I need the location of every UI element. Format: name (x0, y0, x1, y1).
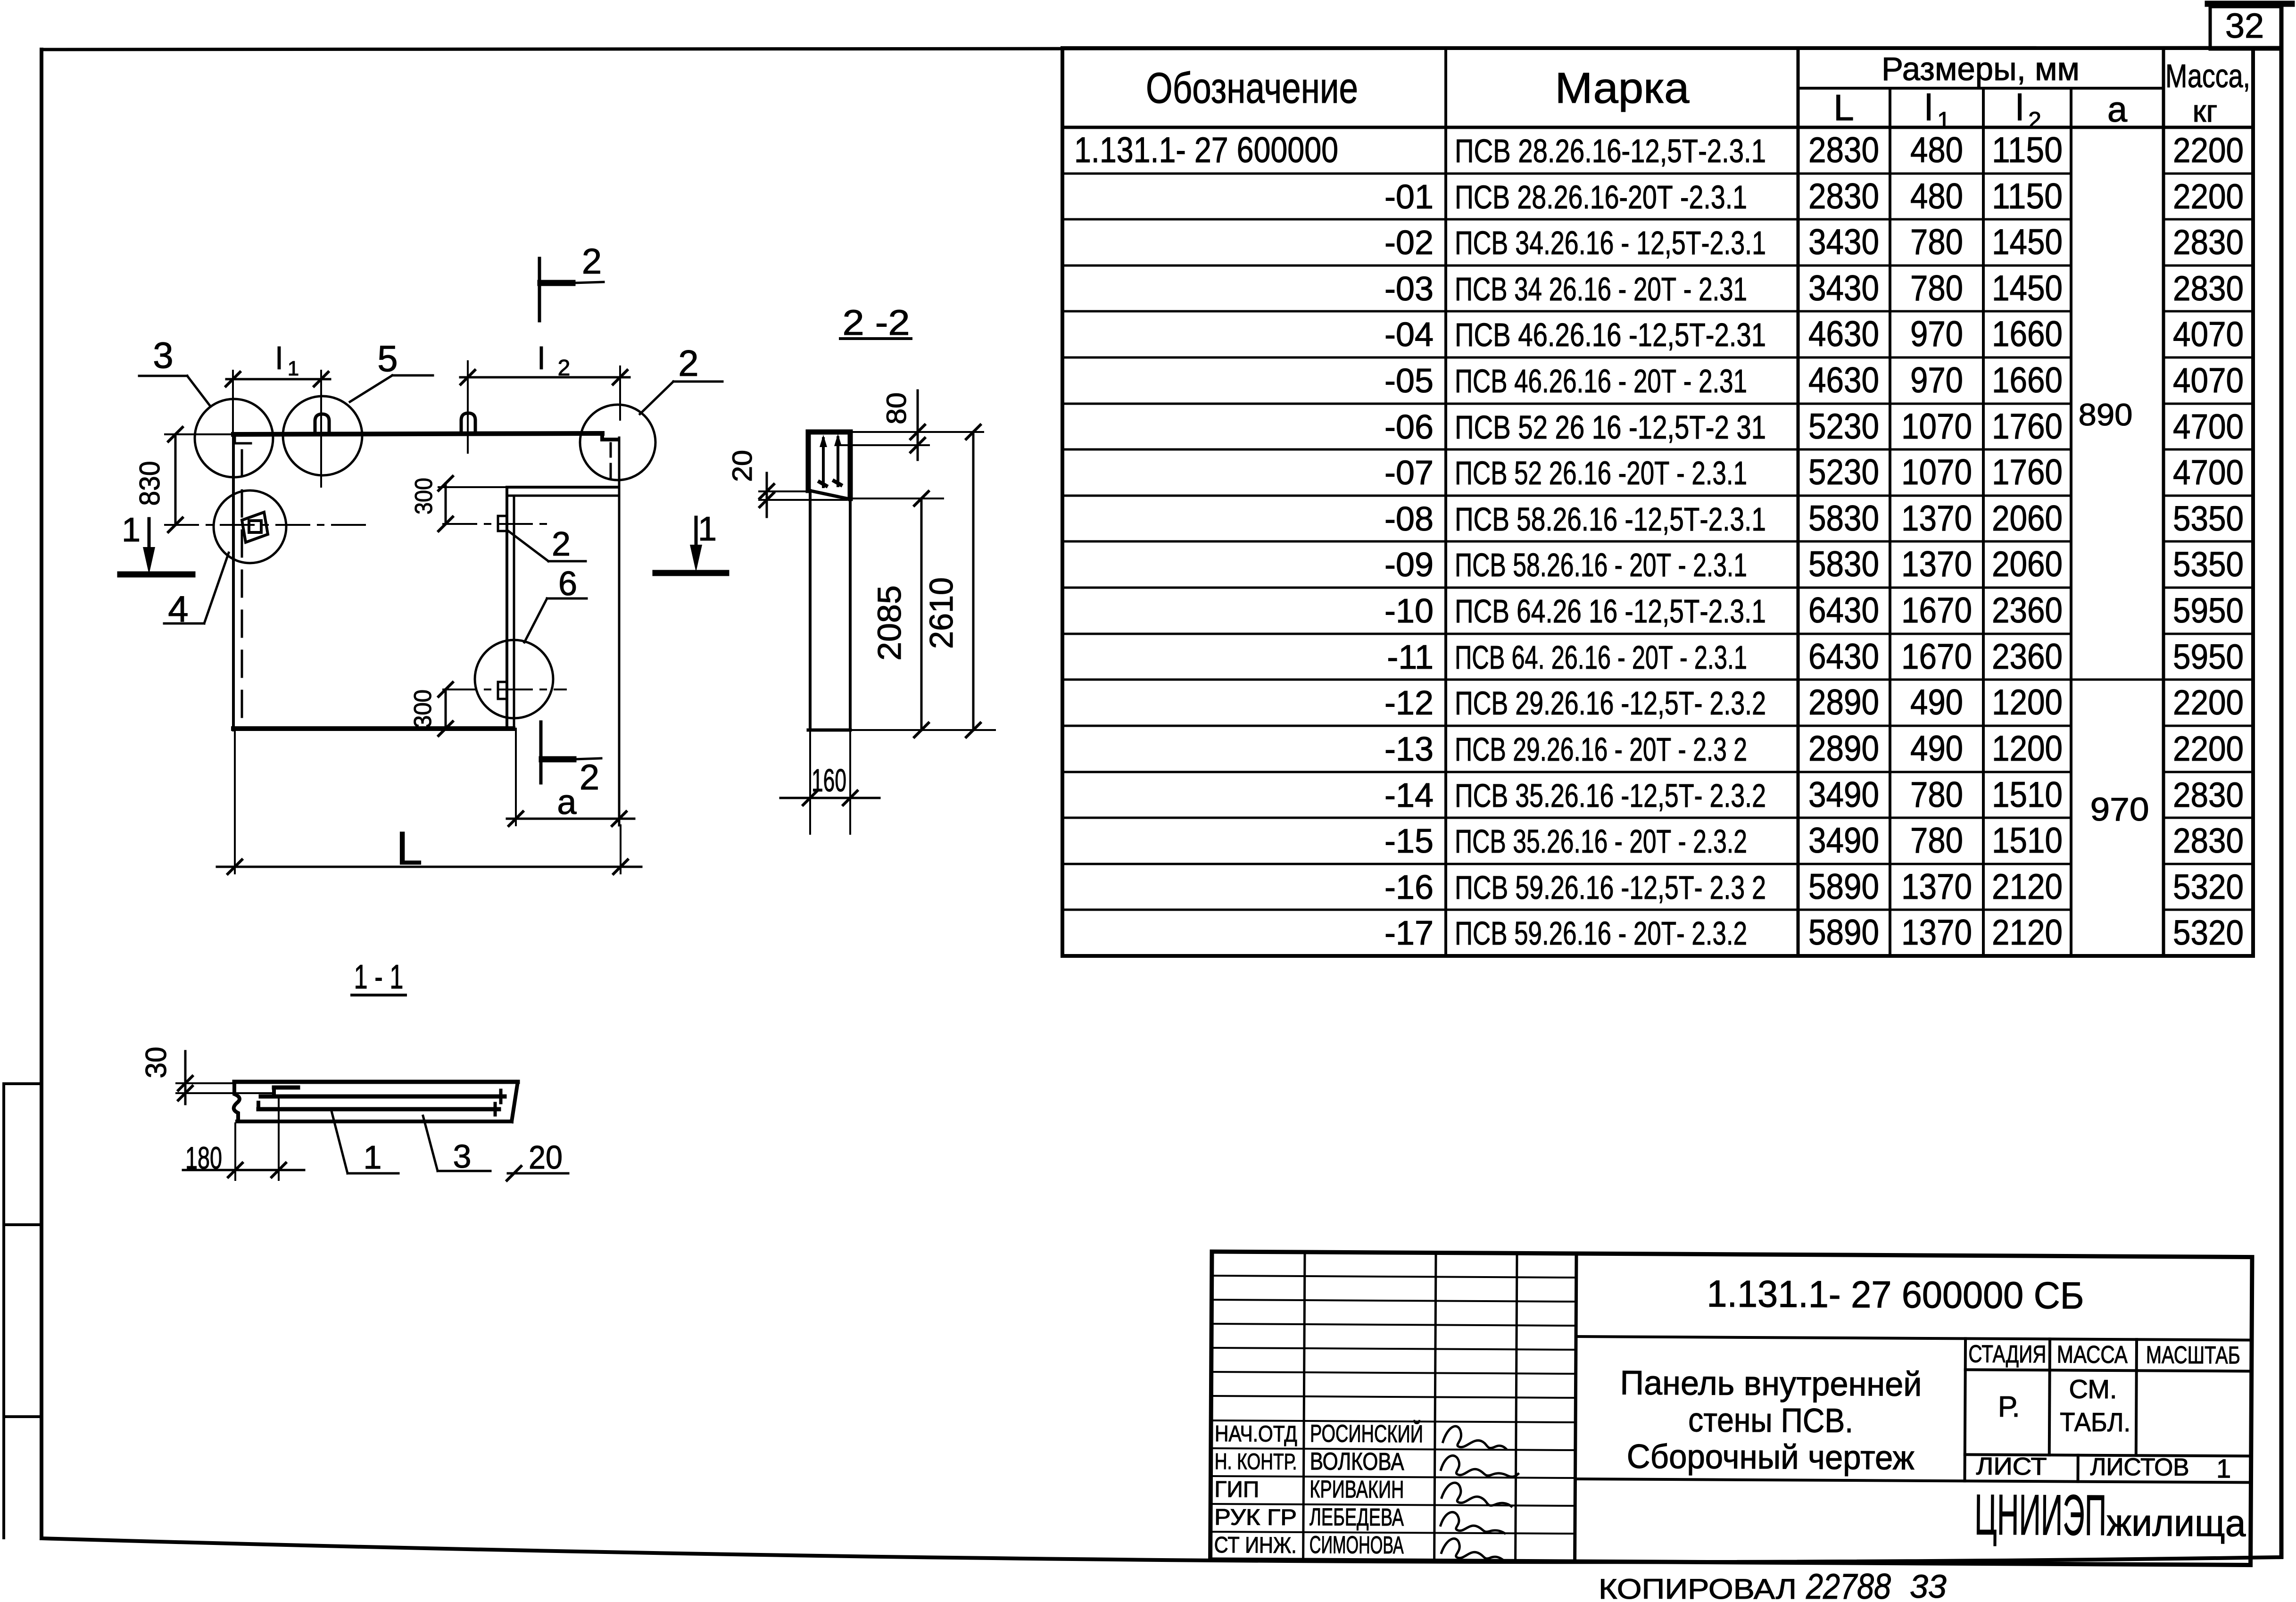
svg-text:МАСШТАБ: МАСШТАБ (2146, 1341, 2240, 1369)
svg-text:3: 3 (453, 1138, 472, 1175)
svg-text:1: 1 (2216, 1453, 2231, 1483)
svg-text:НАЧ.ОТД: НАЧ.ОТД (1215, 1421, 1297, 1447)
svg-text:2: 2 (582, 241, 602, 282)
svg-text:33: 33 (1910, 1568, 1947, 1602)
svg-text:32: 32 (2225, 6, 2264, 45)
dim 80 (917, 390, 919, 460)
svg-text:2610: 2610 (923, 577, 960, 649)
svg-text:1.131.1- 27 600000 СБ: 1.131.1- 27 600000 СБ (1707, 1272, 2084, 1316)
label 2 (top right callout) (673, 381, 722, 383)
svg-text:-16: -16 (1384, 869, 1434, 906)
svg-text:l: l (538, 341, 545, 376)
svg-text:4630: 4630 (1808, 360, 1879, 400)
svg-text:ПСВ 34 26.16 - 20Т - 2.31: ПСВ 34 26.16 - 20Т - 2.31 (1455, 271, 1747, 307)
section outline top thick part (808, 430, 850, 435)
dimension L (234, 730, 236, 873)
svg-text:l: l (1924, 87, 1932, 128)
svg-text:ЛИСТОВ: ЛИСТОВ (2090, 1453, 2189, 1481)
svg-text:2830: 2830 (1808, 130, 1879, 170)
svg-text:2 -2: 2 -2 (843, 303, 910, 343)
svg-text:300: 300 (410, 478, 438, 515)
svg-text:ПСВ 29.26.16 -12,5Т- 2.3.2: ПСВ 29.26.16 -12,5Т- 2.3.2 (1455, 685, 1766, 722)
label 4 (164, 623, 204, 625)
svg-text:-13: -13 (1384, 730, 1434, 768)
svg-text:2200: 2200 (2173, 131, 2244, 170)
svg-text:2: 2 (678, 342, 698, 384)
svg-text:490: 490 (1910, 682, 1963, 722)
step edge double horizontal (507, 486, 618, 489)
svg-text:ПСВ 52 26.16 -20Т - 2.3.1: ПСВ 52 26.16 -20Т - 2.3.1 (1455, 455, 1747, 491)
callout circle 3 (top-left corner) (195, 399, 273, 477)
svg-text:ПСВ 58.26.16 -12,5Т-2.3.1: ПСВ 58.26.16 -12,5Т-2.3.1 (1455, 501, 1766, 538)
section 1-1 (140, 958, 568, 1180)
step edge double vertical (506, 487, 508, 729)
svg-text:22788: 22788 (1806, 1567, 1891, 1602)
panel bottom edge (233, 726, 513, 731)
svg-text:780: 780 (1910, 821, 1963, 861)
svg-text:1370: 1370 (1901, 544, 1972, 584)
leader 3 (423, 1116, 438, 1171)
svg-text:2120: 2120 (1992, 913, 2063, 953)
svg-text:1370: 1370 (1901, 867, 1972, 907)
label 5 (392, 374, 433, 377)
hidden line along left edge (241, 450, 243, 726)
svg-text:жилища: жилища (2106, 1502, 2246, 1544)
svg-text:СТАДИЯ: СТАДИЯ (1968, 1340, 2046, 1368)
svg-text:2085: 2085 (871, 585, 908, 661)
svg-text:-03: -03 (1384, 270, 1434, 308)
label 2 (upper embedded part) (548, 560, 586, 563)
svg-text:-04: -04 (1384, 316, 1434, 354)
label 3 (139, 375, 187, 377)
dim 180 (234, 1123, 236, 1180)
svg-text:ПСВ 46.26.16 -12,5Т-2.31: ПСВ 46.26.16 -12,5Т-2.31 (1455, 316, 1766, 353)
slab outline (234, 1080, 518, 1084)
svg-text:-14: -14 (1384, 777, 1434, 814)
centerline upper embedded (443, 523, 552, 525)
dim 2085 (920, 498, 923, 730)
svg-text:1070: 1070 (1901, 452, 1972, 492)
svg-text:2: 2 (558, 356, 571, 381)
dimension l2 (460, 376, 630, 379)
svg-text:2360: 2360 (1992, 637, 2063, 677)
dim 2610 (972, 432, 975, 730)
svg-text:СИМОНОВА: СИМОНОВА (1310, 1531, 1404, 1559)
svg-text:2200: 2200 (2173, 729, 2244, 768)
svg-text:3490: 3490 (1808, 821, 1879, 861)
section lower walls (809, 490, 812, 730)
svg-text:СМ.: СМ. (2069, 1374, 2117, 1404)
svg-text:480: 480 (1910, 176, 1963, 216)
svg-text:4070: 4070 (2173, 361, 2244, 400)
svg-text:1150: 1150 (1992, 130, 2063, 170)
svg-text:ЛИСТ: ЛИСТ (1976, 1453, 2047, 1480)
svg-text:5950: 5950 (2173, 591, 2244, 630)
svg-text:ПСВ 64. 26.16 - 20Т - 2.3.1: ПСВ 64. 26.16 - 20Т - 2.3.1 (1455, 639, 1747, 676)
left margin boxes (4, 1084, 41, 1538)
svg-text:2830: 2830 (2173, 775, 2244, 814)
svg-text:-17: -17 (1384, 914, 1434, 952)
svg-text:1: 1 (1937, 107, 1950, 133)
label 6 (547, 598, 587, 600)
svg-text:-09: -09 (1384, 546, 1434, 584)
svg-text:1370: 1370 (1901, 913, 1972, 953)
svg-text:1760: 1760 (1992, 407, 2063, 447)
svg-text:1450: 1450 (1992, 268, 2063, 308)
svg-text:780: 780 (1910, 268, 1963, 308)
svg-text:l: l (276, 341, 283, 376)
svg-text:6: 6 (558, 565, 577, 603)
svg-text:1670: 1670 (1901, 637, 1972, 677)
svg-text:Р.: Р. (1998, 1391, 2020, 1423)
svg-text:5830: 5830 (1808, 498, 1879, 539)
svg-text:ПСВ 29.26.16 - 20Т - 2.3 2: ПСВ 29.26.16 - 20Т - 2.3 2 (1455, 731, 1747, 768)
svg-text:1.131.1- 27 600000: 1.131.1- 27 600000 (1074, 130, 1338, 170)
svg-text:1200: 1200 (1992, 729, 2063, 769)
svg-text:1510: 1510 (1992, 775, 2063, 815)
svg-text:4700: 4700 (2173, 453, 2244, 492)
svg-text:1670: 1670 (1901, 590, 1972, 631)
svg-text:5320: 5320 (2173, 867, 2244, 906)
svg-text:6430: 6430 (1808, 637, 1879, 677)
svg-text:ЛЕБЕДЕВА: ЛЕБЕДЕВА (1310, 1503, 1404, 1531)
leader 1 (332, 1111, 348, 1173)
dimension 300 upper (445, 483, 447, 524)
svg-text:L: L (396, 822, 423, 875)
svg-text:2830: 2830 (2173, 821, 2244, 860)
svg-text:кг: кг (2193, 93, 2218, 128)
svg-text:1660: 1660 (1992, 360, 2063, 400)
svg-text:5350: 5350 (2173, 545, 2244, 584)
embedded part lower on step (498, 682, 507, 699)
svg-text:5890: 5890 (1808, 913, 1879, 953)
callout circle 2 (top-right corner) (580, 405, 655, 480)
lifting loop 1 (315, 414, 329, 435)
top-right corner notch (602, 433, 618, 440)
dim 160 bottom (809, 732, 811, 834)
svg-text:ПСВ 52 26 16 -12,5Т-2 31: ПСВ 52 26 16 -12,5Т-2 31 (1455, 409, 1766, 446)
svg-text:-01: -01 (1384, 178, 1434, 216)
svg-text:1760: 1760 (1992, 452, 2063, 492)
signatures (1443, 1426, 1506, 1449)
svg-text:Масса,: Масса, (2165, 58, 2250, 94)
svg-text:Н. КОНТР.: Н. КОНТР. (1215, 1449, 1297, 1475)
svg-text:890: 890 (2079, 397, 2133, 432)
dimension l1 (226, 378, 330, 381)
svg-text:20: 20 (727, 450, 758, 482)
svg-text:ПСВ 35.26.16 -12,5Т- 2.3.2: ПСВ 35.26.16 -12,5Т- 2.3.2 (1455, 777, 1766, 814)
svg-text:2: 2 (580, 757, 599, 797)
hidden edge below right notch (dashes) (610, 443, 612, 481)
svg-text:-08: -08 (1384, 500, 1434, 538)
svg-text:2830: 2830 (1808, 176, 1879, 216)
svg-text:4: 4 (168, 588, 188, 630)
svg-text:1660: 1660 (1992, 314, 2063, 354)
svg-text:а: а (557, 782, 577, 822)
svg-text:2830: 2830 (2173, 269, 2244, 308)
dimension a (515, 729, 517, 825)
svg-text:80: 80 (881, 392, 912, 424)
section 2-2 (727, 303, 995, 834)
svg-text:ПСВ 59.26.16 -12,5Т- 2.3 2: ПСВ 59.26.16 -12,5Т- 2.3 2 (1455, 869, 1766, 906)
svg-text:-11: -11 (1387, 639, 1434, 676)
svg-text:1510: 1510 (1992, 821, 2063, 861)
svg-text:ПСВ 34.26.16 - 12,5Т-2.3.1: ПСВ 34.26.16 - 12,5Т-2.3.1 (1455, 224, 1766, 261)
svg-text:ЦНИИЭП: ЦНИИЭП (1974, 1482, 2107, 1547)
svg-text:2: 2 (552, 525, 571, 563)
svg-text:3490: 3490 (1808, 775, 1879, 815)
svg-text:ПСВ 28.26.16-20Т -2.3.1: ПСВ 28.26.16-20Т -2.3.1 (1455, 179, 1747, 216)
svg-text:970: 970 (1910, 360, 1963, 400)
svg-text:КРИВАКИН: КРИВАКИН (1310, 1476, 1404, 1503)
svg-text:-02: -02 (1384, 224, 1434, 262)
svg-text:1200: 1200 (1992, 682, 2063, 722)
svg-text:480: 480 (1910, 130, 1963, 170)
callout circle 6 (lower embedded) (475, 640, 553, 718)
svg-text:1 - 1: 1 - 1 (354, 958, 404, 996)
section mark 2 bottom (539, 722, 543, 783)
svg-text:5890: 5890 (1808, 867, 1879, 907)
svg-text:5830: 5830 (1808, 544, 1879, 584)
embedded part upper on step (498, 516, 507, 531)
dim 20 right (508, 1172, 568, 1175)
dim 20 left (766, 473, 768, 517)
svg-text:1: 1 (122, 511, 141, 549)
svg-text:ПСВ 46.26.16 - 20Т - 2.31: ПСВ 46.26.16 - 20Т - 2.31 (1455, 363, 1747, 399)
svg-text:4070: 4070 (2173, 315, 2244, 354)
svg-text:СТ ИНЖ.: СТ ИНЖ. (1214, 1533, 1297, 1558)
svg-text:Сборочный чертеж: Сборочный чертеж (1627, 1438, 1915, 1477)
svg-text:Размеры, мм: Размеры, мм (1882, 50, 2080, 87)
svg-text:-10: -10 (1384, 592, 1434, 630)
svg-text:30: 30 (140, 1047, 173, 1079)
svg-text:5: 5 (377, 338, 398, 379)
svg-text:-15: -15 (1384, 822, 1434, 860)
svg-text:1070: 1070 (1901, 407, 1972, 447)
svg-text:ПСВ 58.26.16 - 20Т - 2.3.1: ПСВ 58.26.16 - 20Т - 2.3.1 (1455, 547, 1747, 583)
svg-text:а: а (2107, 90, 2128, 130)
centerline lower embedded (443, 689, 566, 690)
svg-text:Панель внутренней: Панель внутренней (1620, 1364, 1922, 1403)
svg-text:ТАБЛ.: ТАБЛ. (2060, 1407, 2130, 1437)
svg-text:МАССА: МАССА (2057, 1341, 2128, 1369)
svg-text:2200: 2200 (2173, 177, 2244, 216)
svg-text:6430: 6430 (1808, 590, 1879, 631)
svg-text:1370: 1370 (1901, 498, 1972, 539)
svg-text:1: 1 (288, 357, 299, 380)
svg-text:РОСИНСКИЙ: РОСИНСКИЙ (1310, 1419, 1423, 1448)
svg-text:2200: 2200 (2173, 683, 2244, 722)
svg-text:1150: 1150 (1992, 176, 2063, 216)
dimension 300 lower (445, 689, 447, 729)
rebar bars in top part (822, 439, 825, 487)
svg-text:Марка: Марка (1555, 64, 1690, 112)
svg-text:2120: 2120 (1992, 867, 2063, 907)
callout circle 5 (loop) (283, 396, 362, 475)
svg-text:-12: -12 (1384, 684, 1434, 722)
svg-text:180: 180 (185, 1140, 222, 1175)
section mark 2 top (538, 258, 541, 321)
svg-text:2360: 2360 (1992, 590, 2063, 631)
sheet number box 32 (2208, 4, 2292, 49)
panel top edge (233, 433, 602, 434)
rebar 1 upper (261, 1095, 505, 1099)
svg-text:ПСВ 35.26.16 - 20Т - 2.3.2: ПСВ 35.26.16 - 20Т - 2.3.2 (1455, 823, 1747, 860)
svg-text:2890: 2890 (1808, 729, 1879, 769)
parts table (1062, 48, 2253, 956)
svg-text:5230: 5230 (1808, 452, 1879, 492)
title block (1210, 1252, 2252, 1565)
svg-text:1: 1 (698, 510, 717, 548)
svg-text:1450: 1450 (1992, 222, 2063, 262)
dim 30 (184, 1051, 187, 1104)
svg-text:2060: 2060 (1992, 498, 2063, 539)
svg-text:2890: 2890 (1808, 682, 1879, 722)
embedded part symbol in circle 4 (242, 512, 268, 542)
svg-text:830: 830 (134, 461, 166, 506)
svg-text:3430: 3430 (1808, 222, 1879, 262)
svg-text:300: 300 (409, 689, 437, 728)
ext line top edge right (853, 431, 983, 433)
svg-text:ГИП: ГИП (1214, 1477, 1259, 1502)
panel right edge / extension to dim a (618, 438, 621, 825)
svg-text:970: 970 (1910, 314, 1963, 354)
svg-text:20: 20 (529, 1139, 563, 1176)
svg-text:5320: 5320 (2173, 913, 2244, 952)
svg-text:970: 970 (2090, 791, 2149, 828)
svg-text:4700: 4700 (2173, 407, 2244, 446)
centerline through circle 4 (165, 524, 373, 526)
svg-text:5230: 5230 (1808, 407, 1879, 447)
dimension 830 (174, 434, 177, 525)
svg-text:780: 780 (1910, 222, 1963, 262)
svg-text:2: 2 (2028, 107, 2041, 133)
svg-text:-07: -07 (1384, 454, 1434, 492)
svg-text:5950: 5950 (2173, 637, 2244, 676)
section mark 1 right (695, 517, 698, 545)
svg-text:l: l (2015, 87, 2023, 128)
svg-text:2830: 2830 (2173, 223, 2244, 262)
svg-text:490: 490 (1910, 729, 1963, 769)
panel left edge (232, 434, 235, 730)
svg-text:Обозначение: Обозначение (1146, 64, 1358, 112)
svg-text:780: 780 (1910, 775, 1963, 815)
lifting loop 2 (461, 413, 475, 434)
rebar 2 lower (258, 1107, 499, 1112)
svg-text:КОПИРОВАЛ: КОПИРОВАЛ (1599, 1573, 1797, 1602)
footer: kopiroval (1599, 1567, 1947, 1602)
svg-text:стены ПСВ.: стены ПСВ. (1688, 1401, 1853, 1440)
svg-text:3430: 3430 (1808, 268, 1879, 308)
svg-text:ПСВ 28.26.16-12,5Т-2.3.1: ПСВ 28.26.16-12,5Т-2.3.1 (1455, 133, 1766, 169)
svg-text:РУК ГР: РУК ГР (1214, 1505, 1297, 1530)
svg-text:ПСВ 59.26.16 - 20Т- 2.3.2: ПСВ 59.26.16 - 20Т- 2.3.2 (1455, 915, 1747, 952)
section mark 1 left (148, 519, 151, 547)
svg-text:1: 1 (364, 1139, 382, 1176)
svg-text:-06: -06 (1384, 408, 1434, 446)
top-left corner notch (235, 437, 251, 443)
svg-text:ПСВ 64.26 16 -12,5Т-2.3.1: ПСВ 64.26 16 -12,5Т-2.3.1 (1455, 593, 1766, 630)
svg-text:160: 160 (812, 763, 846, 798)
svg-text:4630: 4630 (1808, 314, 1879, 354)
svg-text:5350: 5350 (2173, 499, 2244, 538)
svg-text:ВОЛКОВА: ВОЛКОВА (1310, 1448, 1405, 1476)
svg-text:-05: -05 (1384, 362, 1434, 400)
svg-text:3: 3 (153, 334, 173, 376)
svg-text:L: L (1833, 87, 1854, 128)
callout circle 4 (embedded part left) (214, 490, 286, 563)
svg-text:2060: 2060 (1992, 544, 2063, 584)
plan view of wall panel (120, 241, 726, 875)
